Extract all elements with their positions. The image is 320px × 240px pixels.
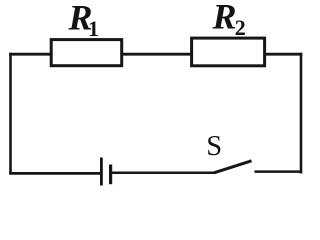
battery right short plate — [109, 165, 112, 185]
svg-text:R: R — [212, 0, 237, 37]
wire battery to switch — [112, 172, 216, 175]
svg-text:S: S — [206, 131, 222, 162]
battery left long plate — [100, 158, 103, 186]
wire left vertical — [9, 53, 12, 174]
resistor R1 — [51, 40, 122, 66]
svg-text:2: 2 — [235, 15, 246, 40]
switch blade — [214, 161, 252, 173]
wire right vertical — [300, 53, 303, 174]
wire top-left segment — [9, 53, 52, 56]
wire bottom-left segment — [9, 172, 100, 175]
resistor R2 — [192, 38, 265, 66]
switch right contact wire — [255, 170, 303, 173]
wire between R1 and R2 — [121, 53, 193, 56]
svg-text:1: 1 — [88, 16, 99, 41]
wire top-right segment — [264, 53, 303, 56]
